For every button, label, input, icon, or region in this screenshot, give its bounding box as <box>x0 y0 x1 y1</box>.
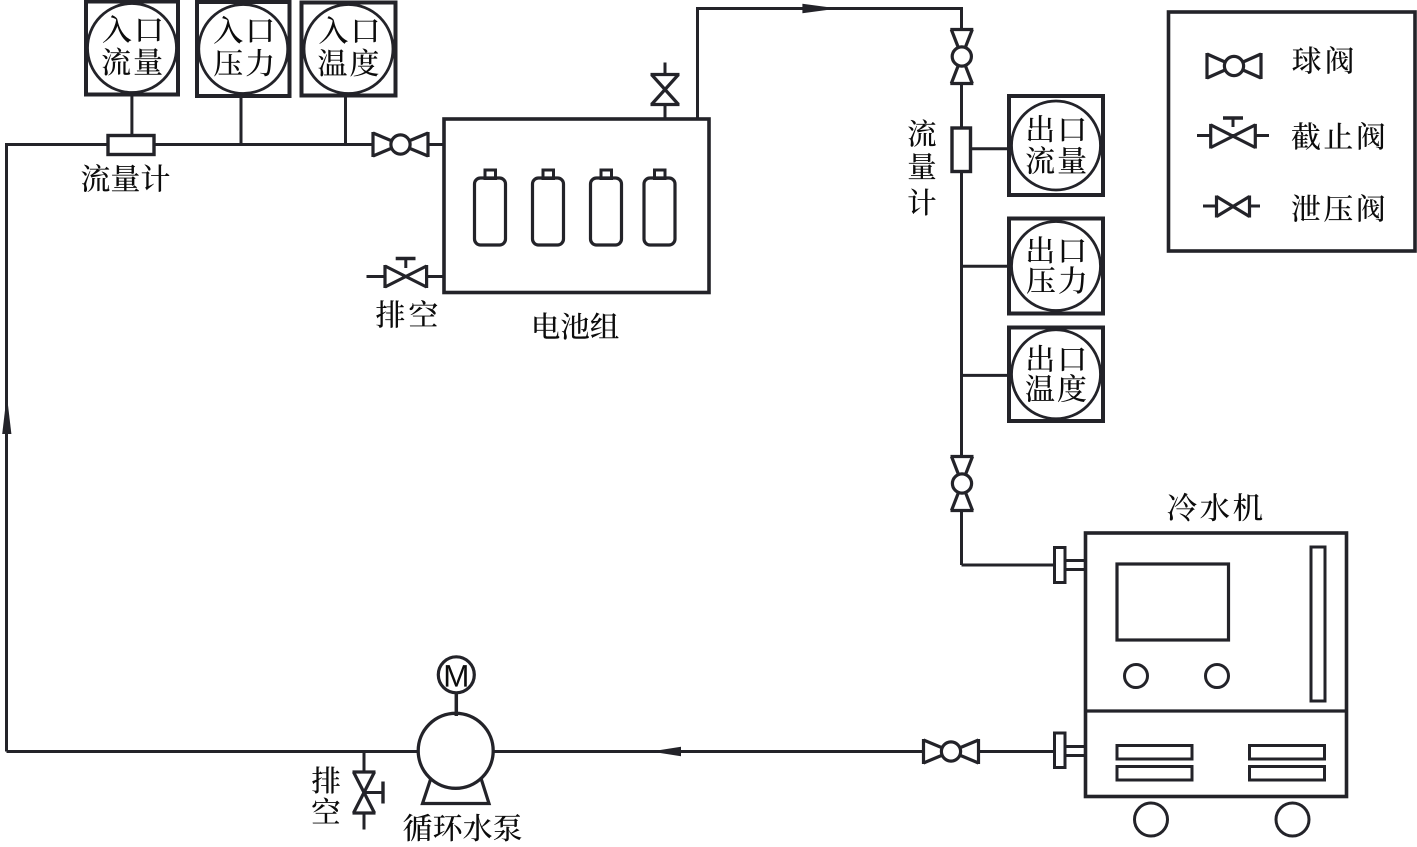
flow arrow right (top header) <box>802 4 838 14</box>
ball valve V2 (outlet riser upper) <box>950 30 973 84</box>
chiller side slot <box>1311 547 1325 701</box>
chiller vent slot 3 <box>1250 746 1325 760</box>
legend ball valve symbol <box>1207 53 1261 79</box>
wire: instrument drop 入口压力 <box>240 95 243 145</box>
legend relief valve symbol <box>1203 196 1260 218</box>
instrument 入口流量 <box>86 2 178 95</box>
legend stop valve symbol <box>1197 118 1269 149</box>
instrument 出口温度 <box>1009 328 1103 422</box>
chiller vent slot 1 <box>1117 746 1192 760</box>
ball valve V3 (outlet riser lower) <box>951 457 974 511</box>
wire: instrument drop 入口温度 <box>344 95 347 145</box>
legend box <box>1169 12 1416 251</box>
circulation pump body <box>418 713 493 803</box>
pipe coupling (chiller inlet) <box>1055 548 1087 583</box>
wire: relief valve stem <box>664 63 667 120</box>
wire: outlet instrument stub 出口流量 <box>969 147 1010 150</box>
chiller knob left <box>1125 665 1148 688</box>
flow arrow up (left riser) <box>2 395 11 434</box>
chiller vent slot 2 <box>1117 767 1192 781</box>
label 流量计 (outlet flow meter, vertical) <box>908 119 935 215</box>
label 循环水泵 <box>403 814 521 842</box>
wire: pump drain stem <box>363 752 366 830</box>
battery pack enclosure 电池组 <box>444 119 709 293</box>
wire: battery drain stub <box>367 275 445 278</box>
wire: downcomer elbow to chiller inlet <box>962 564 1055 567</box>
chiller knob right <box>1206 665 1229 688</box>
wire: outlet instrument stub 出口压力 <box>962 265 1011 268</box>
legend label 球阀 <box>1292 46 1353 74</box>
ball valve V4 (chiller outlet line) <box>924 739 979 764</box>
wire: right downcomer <box>960 7 963 565</box>
wire: instrument drop 入口流量 <box>130 93 133 137</box>
ball valve V1 (battery inlet) <box>373 132 428 157</box>
legend label 截止阀 <box>1292 122 1385 150</box>
instrument 入口压力 <box>197 2 290 96</box>
pump motor stem <box>455 691 459 716</box>
wire: top header <box>696 7 962 10</box>
flow arrow left (bottom return) <box>651 747 681 757</box>
shut-off valve (battery drain 排空) <box>385 259 427 289</box>
label 流量计 (inlet flow meter) <box>82 164 170 192</box>
battery cell 1 <box>475 170 506 245</box>
label 排空 (battery drain) <box>376 300 437 328</box>
instrument 出口流量 <box>1009 96 1103 195</box>
chiller vent slot 4 <box>1250 767 1325 781</box>
chiller display panel <box>1117 564 1229 640</box>
label 电池组 <box>534 312 618 339</box>
wire: left return riser <box>5 143 8 752</box>
battery cell 3 <box>591 170 622 245</box>
relief valve (battery top) <box>651 75 680 105</box>
wire: bottom return line <box>7 750 1055 753</box>
chiller wheel right <box>1276 803 1309 836</box>
wire: outlet instrument stub 出口温度 <box>962 374 1011 377</box>
chiller wheel left <box>1135 803 1168 836</box>
shut-off valve (pump drain 排空) <box>353 772 385 813</box>
battery cell 4 <box>644 170 675 245</box>
instrument 入口温度 <box>302 3 396 96</box>
instrument 出口压力 <box>1009 219 1103 314</box>
wire: supply header top-left (flow meter line) <box>5 143 444 146</box>
flow meter FM2 (outlet, vertical) <box>952 128 971 172</box>
flow meter FM1 (inlet) <box>108 136 154 155</box>
label 冷水机 <box>1168 493 1262 521</box>
pump motor M <box>438 657 474 693</box>
wire: battery outlet riser <box>696 9 699 120</box>
pipe coupling (chiller outlet) <box>1055 733 1087 768</box>
legend label 泄压阀 <box>1292 194 1384 222</box>
label 排空 (pump drain, vertical) <box>312 766 340 823</box>
battery cell 2 <box>533 170 564 245</box>
chiller cabinet 冷水机 <box>1086 533 1349 797</box>
